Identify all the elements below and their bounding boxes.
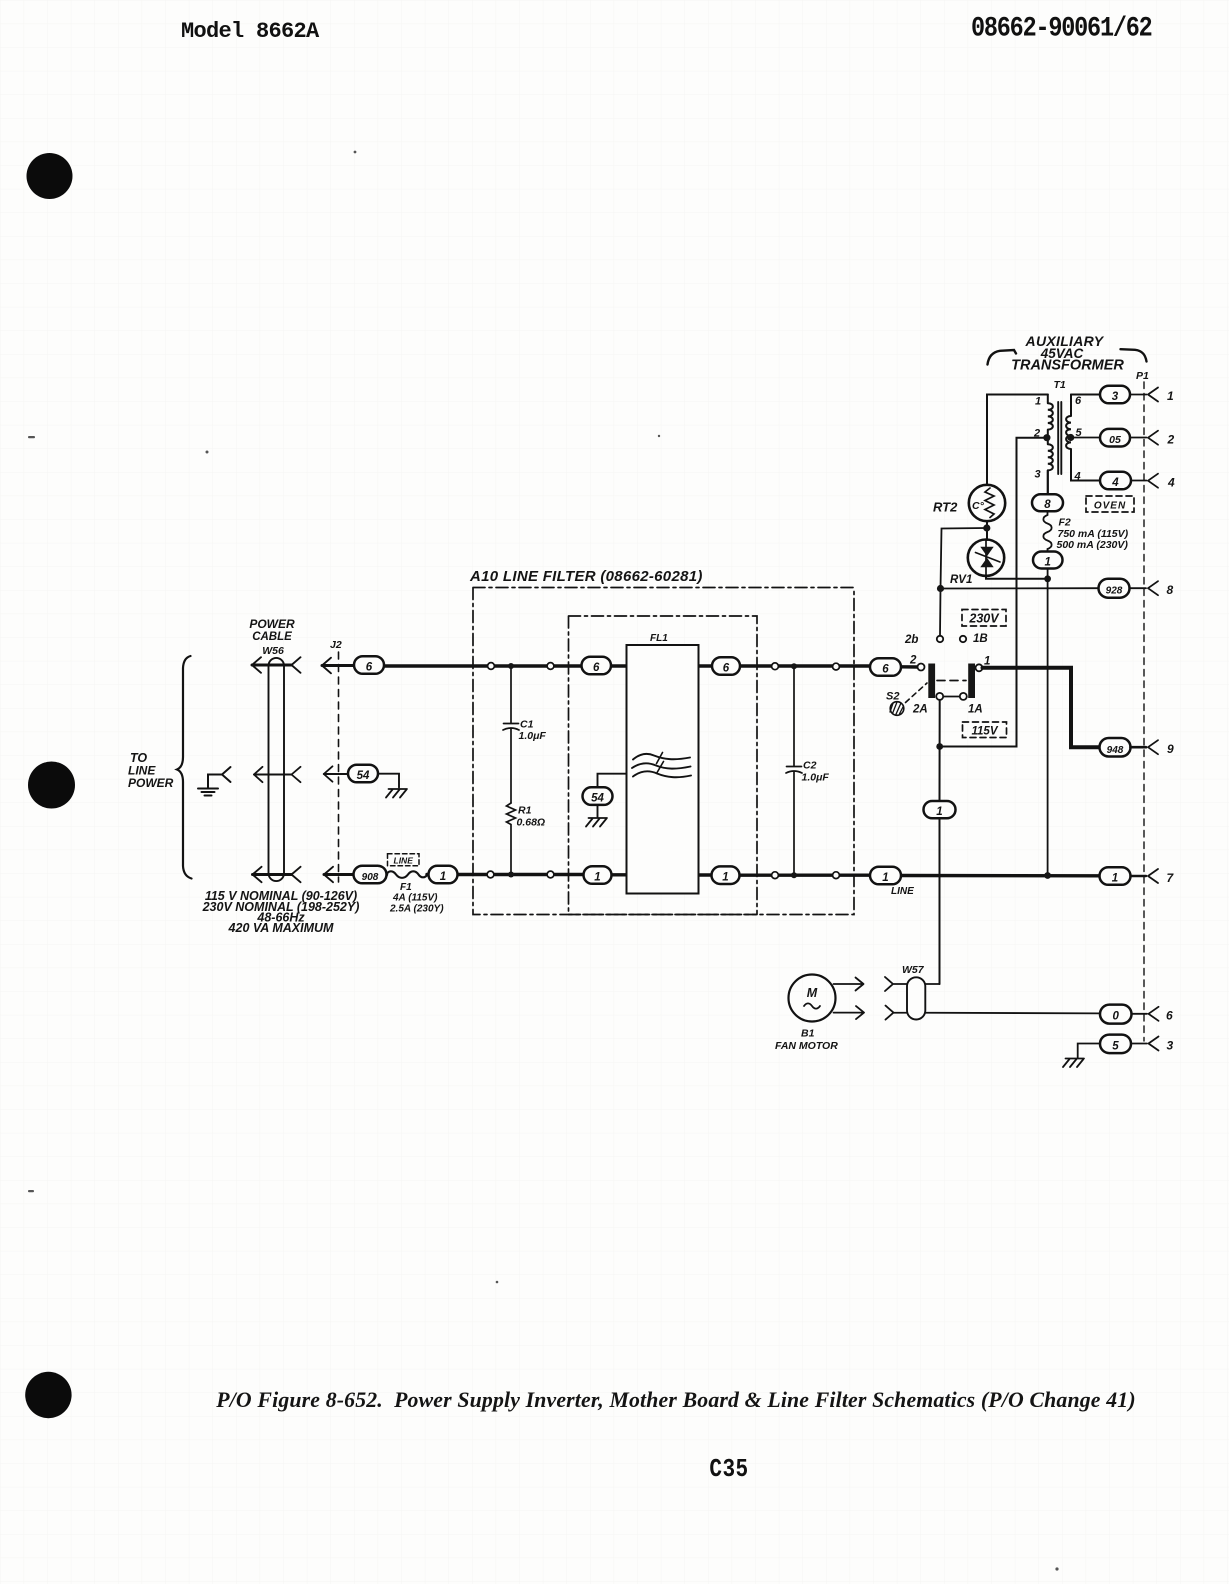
svg-text:B1: B1: [801, 1028, 815, 1040]
svg-text:TRANSFORMER: TRANSFORMER: [1011, 358, 1124, 374]
junction F2 line row C: [1044, 872, 1051, 879]
switch S2 labels 2b 1b: [904, 633, 988, 646]
svg-text:P1: P1: [1136, 370, 1149, 382]
capacitor C2: [786, 666, 829, 875]
svg-text:6: 6: [723, 663, 730, 675]
node oval 54 at J2: [348, 765, 378, 783]
node oval 1 row C right: [1100, 867, 1131, 885]
svg-text:W56: W56: [262, 645, 284, 657]
wire 948 to P1: [1131, 746, 1147, 749]
wire line6 row A filter to switch: [610, 666, 918, 667]
junction wiper node: [936, 743, 943, 750]
resistor R1: [507, 803, 546, 875]
FL1 case: [627, 645, 699, 894]
wire motor lead 1: [834, 978, 864, 991]
svg-text:1A: 1A: [968, 704, 983, 716]
svg-text:1: 1: [1044, 556, 1050, 568]
svg-text:9: 9: [1167, 742, 1174, 756]
svg-text:6: 6: [593, 662, 600, 674]
fuse F2: [1043, 511, 1051, 551]
node oval 1 before LINE: [870, 867, 901, 885]
svg-text:54: 54: [357, 770, 370, 782]
P1 pin 2: [1148, 431, 1175, 447]
switch S2 linkage dashes: [937, 680, 966, 682]
node oval 928: [1099, 579, 1130, 598]
label line ratings: [202, 889, 360, 935]
wire oval1 to P1 pin7: [1131, 875, 1147, 877]
svg-text:908: 908: [362, 872, 379, 883]
label TO LINE POWER: [128, 751, 174, 790]
P1 pin 3 fan: [1149, 1037, 1174, 1053]
wire FL1 ground port: [598, 774, 627, 788]
varistor RV1: [968, 540, 1004, 577]
wire oval5 to P1 pin3: [1131, 1043, 1147, 1045]
punch hole middle: [28, 762, 75, 809]
svg-text:0.68Ω: 0.68Ω: [517, 817, 546, 829]
svg-text:2.5A (230Y): 2.5A (230Y): [389, 904, 444, 915]
svg-text:1: 1: [984, 656, 990, 668]
svg-text:S2: S2: [886, 691, 899, 703]
T1 pin labels: [1033, 395, 1083, 483]
terminal circles row A left: [488, 663, 495, 670]
label 115V box: [963, 722, 1007, 738]
svg-text:POWER: POWER: [249, 617, 295, 631]
svg-text:08662-90061/62: 08662-90061/62: [971, 13, 1152, 44]
FL1 wave slashes: [657, 753, 664, 774]
svg-text:1B: 1B: [973, 633, 988, 645]
svg-text:1: 1: [440, 871, 446, 883]
connector motor 2: [886, 1006, 1100, 1020]
switch S2 blade 1A: [968, 664, 975, 699]
svg-text:1.0μF: 1.0μF: [802, 772, 830, 784]
transformer T1 secondary: [1066, 395, 1098, 481]
junction R1 bottom: [508, 872, 514, 878]
svg-text:0: 0: [1112, 1011, 1119, 1023]
node oval 1 after F1: [429, 866, 458, 884]
switch S2 contact 2: [918, 664, 925, 671]
wire 54 to chassis ground: [378, 774, 399, 788]
node oval 6 filter left: [582, 657, 612, 675]
wire wiper to oval 1 and fan: [939, 747, 941, 985]
connector J2-6: [322, 664, 354, 667]
node oval 4: [1100, 472, 1131, 490]
FL1 shield inner box: [569, 616, 758, 915]
svg-text:3: 3: [1167, 1039, 1174, 1053]
svg-text:1: 1: [1167, 389, 1174, 403]
svg-text:RV1: RV1: [950, 574, 972, 586]
wire F2 line down to row C: [1047, 569, 1049, 876]
svg-text:4A (115V): 4A (115V): [392, 893, 438, 904]
svg-text:6: 6: [882, 664, 889, 676]
svg-text:F2: F2: [1059, 517, 1071, 529]
P1 pin 9: [1148, 740, 1174, 756]
node oval 05: [1100, 429, 1130, 447]
svg-text:1: 1: [1035, 396, 1041, 408]
svg-text:CABLE: CABLE: [252, 631, 292, 643]
label OVEN box: [1086, 496, 1134, 512]
node oval 6 filter right: [712, 657, 740, 675]
wire RT2 bottom: [986, 521, 988, 540]
svg-text:5: 5: [1112, 1040, 1119, 1052]
terminal circles row A right: [772, 663, 779, 670]
svg-text:C1: C1: [520, 719, 534, 731]
svg-text:LINE: LINE: [891, 886, 914, 897]
svg-text:4: 4: [1167, 476, 1175, 490]
P1 pin 6 fan: [1149, 1007, 1174, 1023]
connector J2-54: [324, 773, 348, 775]
switch S2 contact 1A bottom: [960, 693, 967, 700]
wire line1 row C J2 to filter: [354, 873, 585, 876]
wire switch wiper down: [939, 700, 941, 747]
svg-text:R1: R1: [518, 805, 532, 817]
label auxiliary transformer: [1011, 333, 1124, 374]
chassis ground at FL1: [586, 818, 607, 827]
node oval 948: [1100, 738, 1131, 757]
svg-text:2b: 2b: [904, 634, 918, 646]
connector pair W56 line 6: [252, 664, 292, 667]
svg-text:500 mA (230V): 500 mA (230V): [1057, 539, 1129, 551]
earth ground symbol: [198, 767, 231, 796]
junction T1 tap2: [1043, 434, 1050, 441]
switch S2 contact 2b: [937, 636, 943, 642]
P1 pin 1: [1148, 388, 1174, 404]
svg-text:8: 8: [1167, 583, 1174, 597]
junction C1 top: [508, 663, 514, 669]
junction RV1 to F2 line: [1044, 575, 1051, 582]
label F1 value: [389, 882, 444, 915]
switch S2 contact 1b: [960, 636, 966, 642]
chassis ground bottom right: [1063, 1059, 1084, 1068]
svg-text:W57: W57: [902, 964, 925, 976]
label POWER CABLE W56: [249, 617, 295, 657]
svg-text:2: 2: [1167, 433, 1175, 447]
thermistor RT2: [969, 485, 1005, 521]
svg-text:C35: C35: [709, 1455, 748, 1485]
junction 928 line: [937, 585, 944, 592]
svg-text:05: 05: [1109, 434, 1121, 446]
node oval 0: [1100, 1005, 1132, 1024]
junction T1 tap5: [1067, 434, 1074, 441]
cable W57: [907, 977, 925, 1019]
node oval 1 under F2: [1033, 552, 1063, 569]
node oval 54 at FL1: [583, 787, 613, 805]
svg-text:1: 1: [1112, 873, 1118, 885]
switch S2 contact 2A bottom: [936, 693, 943, 700]
chassis ground at J2-54: [386, 789, 407, 798]
svg-text:C2: C2: [803, 760, 817, 772]
svg-text:J2: J2: [330, 639, 342, 651]
svg-text:C°: C°: [972, 500, 985, 512]
fuse F1: [387, 871, 428, 878]
svg-text:8: 8: [1044, 499, 1051, 511]
node oval 1 under S2: [924, 801, 956, 818]
node oval 6 before S2: [870, 658, 901, 676]
label LINE box: [388, 854, 420, 866]
wire 928 line: [941, 587, 1100, 589]
punch hole top: [27, 153, 73, 199]
svg-text:P/O Figure 8-652. Power Suppl: P/O Figure 8-652. Power Supply Inverter,…: [215, 1388, 1135, 1412]
node oval 6 at J2: [354, 656, 384, 674]
wire motor lead 2: [834, 1006, 865, 1019]
node oval 5: [1100, 1035, 1131, 1054]
svg-text:3: 3: [1035, 469, 1041, 481]
wire switched line to 948: [983, 668, 1100, 747]
wire 54 to chassis ground: [597, 805, 599, 817]
node oval 8: [1032, 494, 1063, 511]
terminal circles row C left: [487, 871, 494, 878]
svg-text:4: 4: [1111, 477, 1119, 489]
svg-text:A10 LINE FILTER (08662-60281): A10 LINE FILTER (08662-60281): [469, 568, 703, 585]
node oval 3: [1100, 386, 1130, 404]
switch S2 blade 2A: [928, 664, 935, 699]
svg-text:1.0μF: 1.0μF: [519, 730, 547, 742]
svg-text:3: 3: [1112, 391, 1119, 403]
svg-text:6: 6: [366, 662, 373, 674]
wire T1 tap5 to oval05: [1071, 437, 1100, 439]
node oval 1 filter left: [584, 866, 612, 884]
wire oval0 to P1 pin6: [1132, 1013, 1148, 1015]
svg-text:420 VA MAXIMUM: 420 VA MAXIMUM: [228, 921, 334, 935]
fan motor B1: [789, 975, 836, 1022]
svg-text:T1: T1: [1054, 379, 1066, 391]
svg-text:6: 6: [1075, 395, 1082, 407]
S2 adjust symbol: [890, 683, 927, 715]
svg-text:FAN MOTOR: FAN MOTOR: [775, 1040, 838, 1052]
transformer T1 primary: [1048, 395, 1053, 495]
svg-text:928: 928: [1106, 586, 1123, 597]
junction C2 top: [791, 663, 797, 669]
svg-text:4: 4: [1074, 471, 1081, 483]
brace aux right end: [1121, 349, 1147, 361]
svg-text:1: 1: [882, 872, 888, 884]
svg-text:1: 1: [722, 872, 728, 884]
wire line1 row C filter to right: [611, 875, 1100, 876]
wire RT2 top to T1 pin1: [987, 395, 1048, 485]
svg-text:1: 1: [594, 872, 600, 884]
connector pair W56 earth: [254, 774, 292, 776]
brace aux left end: [988, 350, 1017, 365]
transformer T1 core: [1058, 402, 1061, 474]
wire oval4 to P1 pin4: [1131, 480, 1147, 482]
scan specks: [28, 151, 1059, 1571]
brace TO LINE POWER: [177, 656, 192, 879]
svg-text:FL1: FL1: [650, 633, 668, 644]
connector motor 1: [885, 977, 940, 991]
capacitor C1: [503, 666, 546, 803]
node oval 908: [354, 866, 387, 884]
P1 pin 7: [1148, 869, 1175, 885]
junction RT2 RV1: [983, 524, 990, 531]
node oval 1 filter right: [712, 866, 740, 884]
svg-text:1: 1: [936, 806, 942, 818]
svg-text:230V: 230V: [968, 612, 1000, 626]
label B1 FAN MOTOR: [775, 1028, 838, 1053]
junction C2 bottom: [791, 872, 797, 878]
svg-text:948: 948: [1107, 745, 1124, 756]
connector J2-908: [324, 873, 354, 876]
switch S2 contact 1: [976, 664, 983, 671]
svg-text:6: 6: [1166, 1009, 1173, 1023]
power cable W56: [269, 658, 285, 881]
wire ground to oval5: [1078, 1044, 1100, 1058]
svg-text:POWER: POWER: [128, 776, 174, 790]
terminal circles row C right: [772, 872, 779, 879]
wire 2b to 928 node to RT2 junction: [940, 528, 987, 636]
P1 pin 4: [1148, 474, 1175, 490]
wire T1 pin3 to oval 8: [1047, 470, 1049, 494]
FL1 filter waves: [632, 754, 691, 777]
wire T1 pin6 to oval3: [1071, 394, 1100, 396]
wire oval3 to P1 pin1: [1130, 394, 1147, 396]
label 230V box: [962, 610, 1006, 627]
svg-text:115V: 115V: [971, 726, 998, 738]
svg-text:OVEN: OVEN: [1094, 501, 1126, 512]
connector P1 dashed line: [1143, 382, 1145, 1041]
svg-text:2: 2: [909, 655, 917, 667]
connector J2 dashed line: [338, 652, 340, 882]
connector pair W56 line 1: [253, 873, 292, 876]
svg-text:54: 54: [591, 793, 604, 805]
svg-text:RT2: RT2: [933, 500, 958, 515]
switch S2 wiper link wire: [941, 696, 962, 698]
svg-text:Model 8662A: Model 8662A: [181, 19, 320, 44]
svg-text:LINE: LINE: [394, 856, 414, 866]
wire 928 to P1: [1130, 587, 1147, 589]
wire RV1 bottom to F2 line: [986, 576, 1048, 579]
wire oval05 to P1 pin2: [1130, 437, 1147, 439]
svg-text:2A: 2A: [912, 704, 928, 716]
P1 pin 8: [1148, 581, 1174, 597]
wire wiper to 115V riser: [940, 438, 1047, 747]
A10 shield outer box: [473, 588, 854, 915]
punch hole bottom: [25, 1372, 71, 1418]
svg-text:F1: F1: [400, 882, 412, 893]
svg-text:2: 2: [1033, 428, 1040, 440]
wire line6 row A J2 to filter: [384, 664, 583, 667]
label F2 values: [1057, 517, 1129, 552]
svg-text:M: M: [807, 986, 818, 1000]
